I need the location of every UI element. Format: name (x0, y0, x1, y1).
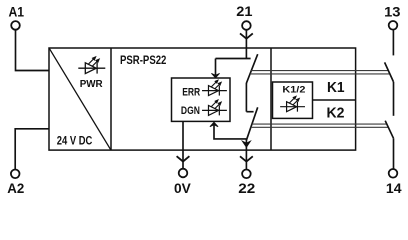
wire between NC contacts (245, 83, 247, 112)
wire A1 to power block (16, 30, 50, 71)
NO contact 13 blade (385, 62, 394, 82)
svg-text:24 V DC: 24 V DC (57, 136, 93, 148)
svg-text:PSR-PS22: PSR-PS22 (120, 53, 167, 67)
arrow on wire 21 (240, 33, 253, 38)
main device box (49, 48, 356, 150)
arrowhead into ERR box bottom (210, 122, 218, 127)
svg-text:22: 22 (238, 180, 255, 196)
terminal 22 circle (242, 170, 251, 179)
NC contact K1 blade (246, 54, 257, 83)
terminal 13 circle (389, 21, 398, 30)
wire between NO contacts (393, 82, 395, 116)
mechanical link lines K2 (252, 123, 387, 125)
svg-text:14: 14 (386, 180, 402, 196)
NO contact 14 blade (385, 121, 393, 139)
wire down into ERR box (215, 59, 217, 78)
svg-text:21: 21 (236, 3, 252, 19)
wire junction to terminal 22 (245, 139, 247, 150)
terminal 21 circle (242, 21, 251, 30)
svg-text:A2: A2 (7, 180, 24, 196)
K1/2 LED box (273, 82, 313, 118)
svg-text:K2: K2 (327, 104, 345, 121)
arrow on wire 22 (240, 156, 253, 161)
arrow on wire 0V (177, 156, 190, 161)
wire 13 down (392, 30, 394, 56)
power section divider (110, 48, 112, 150)
terminal A2 circle (11, 170, 20, 179)
terminal 0V circle (179, 169, 188, 178)
svg-text:ERR: ERR (182, 87, 200, 99)
filled arrow to 22 (242, 141, 250, 147)
wire 21 into box (245, 30, 247, 59)
NC contact K2 fixed tick (246, 111, 253, 113)
wire ERR box bottom feedback (214, 123, 246, 139)
svg-text:K1/2: K1/2 (282, 85, 305, 96)
power converter diagonal (49, 49, 110, 150)
svg-text:13: 13 (384, 3, 401, 19)
wire to 14 (393, 138, 395, 169)
LED K1/2 (280, 96, 305, 112)
ERR/DGN logic box (172, 78, 231, 121)
terminal 14 circle (389, 169, 398, 178)
wire A2 to power block (15, 129, 49, 170)
wire ERR box to 0V (182, 121, 184, 168)
relay section divider (270, 48, 272, 150)
K1/K2 cell divider (313, 99, 356, 101)
svg-text:K1: K1 (327, 79, 345, 96)
wire below box to 22 (245, 150, 247, 169)
svg-text:DGN: DGN (181, 105, 200, 117)
mechanical link lines K1 (251, 70, 389, 72)
LED PWR (78, 57, 105, 74)
LED DGN (202, 100, 227, 116)
svg-text:PWR: PWR (80, 79, 104, 90)
wire 21 feedback horizontal (216, 58, 251, 60)
svg-text:A1: A1 (9, 3, 25, 19)
arrowhead into ERR box top (211, 73, 219, 78)
LED ERR (202, 80, 227, 96)
NC contact K2 blade (246, 107, 257, 140)
svg-text:0V: 0V (174, 180, 191, 196)
terminal A1 circle (11, 21, 20, 30)
